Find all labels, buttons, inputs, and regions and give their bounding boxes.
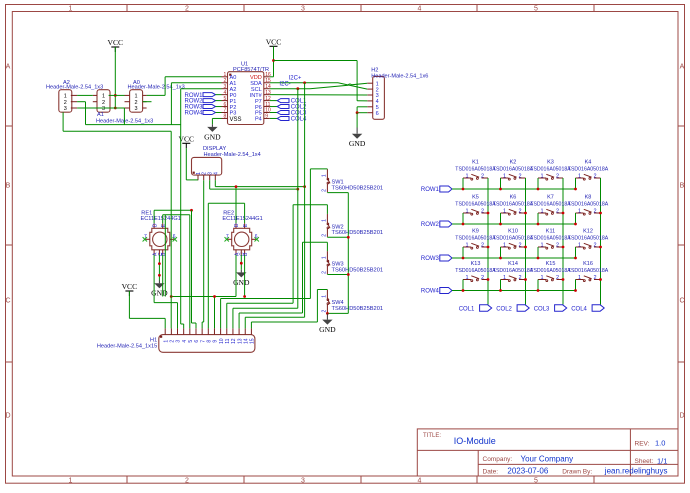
svg-text:1: 1 — [465, 209, 468, 215]
svg-text:Header-Male-2.54_1x4: Header-Male-2.54_1x4 — [204, 152, 261, 158]
svg-text:2: 2 — [518, 174, 521, 180]
svg-text:COL1: COL1 — [459, 306, 475, 312]
svg-text:K16: K16 — [583, 261, 593, 267]
svg-text:TSD016A05018A: TSD016A05018A — [530, 268, 571, 274]
svg-text:1: 1 — [503, 243, 506, 249]
svg-text:VSS: VSS — [230, 117, 242, 123]
svg-text:8: 8 — [224, 114, 227, 120]
svg-text:TS60HD50B25B201: TS60HD50B25B201 — [332, 306, 384, 312]
svg-text:2: 2 — [556, 209, 559, 215]
svg-text:6: 6 — [194, 340, 200, 343]
svg-text:TSD016A05018A: TSD016A05018A — [493, 202, 534, 208]
svg-text:2: 2 — [556, 174, 559, 180]
svg-text:1: 1 — [578, 243, 581, 249]
svg-text:K4: K4 — [585, 160, 592, 166]
svg-text:1: 1 — [322, 256, 328, 259]
svg-text:EC11E15244G1: EC11E15244G1 — [222, 216, 262, 222]
svg-text:TSD016A05018A: TSD016A05018A — [568, 236, 609, 242]
svg-text:COL3: COL3 — [534, 306, 550, 312]
svg-text:2: 2 — [185, 6, 189, 13]
svg-text:GND: GND — [319, 325, 336, 334]
svg-text:2: 2 — [593, 275, 596, 281]
svg-text:1: 1 — [465, 275, 468, 281]
svg-text:1: 1 — [69, 6, 73, 13]
svg-text:7: 7 — [144, 234, 147, 240]
svg-text:15: 15 — [250, 338, 256, 344]
svg-text:TSD016A05018A: TSD016A05018A — [530, 167, 571, 173]
svg-text:TS60HD50B25B201: TS60HD50B25B201 — [332, 267, 384, 273]
svg-text:ROW1: ROW1 — [421, 187, 440, 193]
svg-text:B: B — [6, 183, 11, 190]
svg-text:8: 8 — [206, 340, 212, 343]
svg-text:10: 10 — [219, 338, 225, 344]
svg-text:11: 11 — [225, 338, 231, 343]
svg-text:2: 2 — [481, 209, 484, 215]
svg-text:2: 2 — [322, 271, 328, 274]
svg-text:K13: K13 — [471, 261, 481, 267]
svg-text:9: 9 — [265, 114, 268, 120]
svg-text:2: 2 — [593, 209, 596, 215]
svg-text:Header-Male-2.54_1x6: Header-Male-2.54_1x6 — [371, 74, 428, 80]
svg-text:3: 3 — [176, 340, 182, 343]
svg-text:1: 1 — [540, 209, 543, 215]
svg-text:Your Company: Your Company — [521, 455, 574, 464]
svg-text:1: 1 — [540, 275, 543, 281]
svg-text:2: 2 — [102, 100, 105, 106]
svg-text:K9: K9 — [472, 229, 479, 235]
svg-text:TSD016A05018A: TSD016A05018A — [568, 268, 609, 274]
svg-text:Header-Male-2.54_1x15: Header-Male-2.54_1x15 — [97, 343, 157, 349]
svg-text:5: 5 — [188, 340, 194, 343]
svg-text:Company:: Company: — [483, 456, 513, 463]
svg-text:1: 1 — [322, 174, 328, 177]
svg-text:1: 1 — [578, 275, 581, 281]
svg-text:COL2: COL2 — [496, 306, 512, 312]
svg-text:jean.redelinghuys: jean.redelinghuys — [604, 467, 668, 476]
svg-text:A: A — [680, 64, 685, 71]
svg-text:TSD016A05018A: TSD016A05018A — [568, 167, 609, 173]
svg-text:12: 12 — [231, 338, 237, 344]
svg-text:K5: K5 — [472, 195, 479, 201]
svg-text:P4: P4 — [255, 117, 262, 123]
svg-text:2: 2 — [481, 275, 484, 281]
svg-text:D: D — [679, 413, 684, 420]
svg-text:Date:: Date: — [483, 468, 499, 475]
svg-text:6: 6 — [376, 111, 379, 117]
svg-text:9: 9 — [213, 340, 219, 343]
svg-text:1: 1 — [163, 340, 169, 343]
svg-text:P3: P3 — [230, 111, 237, 117]
svg-text:1: 1 — [503, 209, 506, 215]
svg-text:TS60HD50B25B201: TS60HD50B25B201 — [332, 185, 384, 191]
svg-text:1: 1 — [322, 219, 328, 222]
svg-text:4: 4 — [182, 340, 188, 343]
svg-text:2: 2 — [518, 275, 521, 281]
svg-text:1: 1 — [465, 243, 468, 249]
svg-text:K1: K1 — [472, 160, 479, 166]
svg-text:6: 6 — [173, 234, 176, 240]
svg-text:1: 1 — [503, 275, 506, 281]
svg-text:1: 1 — [64, 94, 67, 100]
svg-text:5: 5 — [534, 6, 538, 13]
svg-text:2: 2 — [481, 174, 484, 180]
svg-text:ROW3: ROW3 — [421, 256, 440, 262]
svg-text:14: 14 — [243, 338, 249, 344]
svg-text:I2C-: I2C- — [279, 82, 290, 88]
svg-text:3: 3 — [301, 478, 305, 485]
svg-text:TSD016A05018A: TSD016A05018A — [455, 236, 496, 242]
svg-text:3: 3 — [64, 106, 67, 112]
svg-text:1: 1 — [503, 174, 506, 180]
svg-text:D: D — [234, 223, 240, 227]
svg-text:D: D — [5, 413, 10, 420]
svg-text:4: 4 — [418, 478, 422, 485]
svg-text:2: 2 — [322, 309, 328, 312]
svg-text:2: 2 — [322, 189, 328, 192]
svg-text:1: 1 — [540, 243, 543, 249]
svg-text:K15: K15 — [546, 261, 556, 267]
svg-text:2: 2 — [481, 243, 484, 249]
svg-text:K8: K8 — [585, 195, 592, 201]
svg-text:TS60HD50B25B201: TS60HD50B25B201 — [332, 230, 384, 236]
svg-text:4: 4 — [213, 172, 219, 175]
svg-text:2: 2 — [185, 478, 189, 485]
svg-text:7: 7 — [226, 234, 229, 240]
svg-text:K11: K11 — [546, 229, 555, 235]
svg-text:TSD016A05018A: TSD016A05018A — [530, 236, 571, 242]
svg-text:D: D — [152, 223, 158, 227]
svg-text:A: A — [6, 64, 11, 71]
svg-text:VCC: VCC — [122, 282, 138, 291]
svg-text:5: 5 — [534, 478, 538, 485]
svg-text:2: 2 — [593, 174, 596, 180]
svg-text:REV:: REV: — [635, 441, 650, 448]
svg-text:ROW4: ROW4 — [421, 289, 440, 295]
svg-text:2: 2 — [322, 234, 328, 237]
svg-text:TITLE:: TITLE: — [423, 433, 441, 439]
svg-text:Header-Male-2.54_1x3: Header-Male-2.54_1x3 — [128, 84, 185, 90]
svg-text:TSD016A05018A: TSD016A05018A — [493, 268, 534, 274]
svg-text:1: 1 — [578, 209, 581, 215]
svg-text:1: 1 — [135, 94, 138, 100]
svg-text:GND: GND — [349, 139, 366, 148]
svg-text:K2: K2 — [510, 160, 517, 166]
svg-text:1: 1 — [578, 174, 581, 180]
svg-text:2: 2 — [64, 100, 67, 106]
svg-text:I2C+: I2C+ — [289, 75, 302, 81]
svg-text:3: 3 — [301, 6, 305, 13]
svg-text:VCC: VCC — [266, 38, 282, 47]
svg-text:TSD016A05018A: TSD016A05018A — [568, 202, 609, 208]
svg-text:TSD016A05018A: TSD016A05018A — [455, 268, 496, 274]
svg-text:TSD016A05018A: TSD016A05018A — [530, 202, 571, 208]
svg-text:VCC: VCC — [107, 38, 123, 47]
svg-text:1: 1 — [540, 174, 543, 180]
svg-text:A1: A1 — [97, 112, 104, 118]
svg-text:K14: K14 — [508, 261, 518, 267]
svg-text:13: 13 — [237, 338, 243, 344]
svg-text:TSD016A05018A: TSD016A05018A — [493, 236, 534, 242]
svg-text:TSD016A05018A: TSD016A05018A — [455, 202, 496, 208]
svg-text:EC11E15244G1: EC11E15244G1 — [141, 216, 181, 222]
svg-text:1: 1 — [465, 174, 468, 180]
svg-text:PCF8574T/TR: PCF8574T/TR — [233, 67, 269, 73]
svg-text:K12: K12 — [583, 229, 593, 235]
svg-text:ROW2: ROW2 — [421, 222, 440, 228]
svg-text:2: 2 — [518, 209, 521, 215]
svg-text:2: 2 — [170, 340, 176, 343]
svg-text:K6: K6 — [510, 195, 517, 201]
svg-text:COL4: COL4 — [571, 306, 587, 312]
svg-text:H1: H1 — [150, 337, 157, 343]
svg-text:GND: GND — [204, 132, 221, 141]
svg-text:1: 1 — [69, 478, 73, 485]
svg-text:1: 1 — [102, 94, 105, 100]
svg-text:2: 2 — [593, 243, 596, 249]
svg-text:6: 6 — [255, 234, 258, 240]
svg-text:1.0: 1.0 — [655, 439, 665, 448]
svg-text:TSD016A05018A: TSD016A05018A — [455, 167, 496, 173]
svg-text:K7: K7 — [547, 195, 554, 201]
svg-text:K10: K10 — [508, 229, 518, 235]
svg-text:IO-Module: IO-Module — [454, 436, 496, 446]
svg-text:Header-Male-2.54_1x3: Header-Male-2.54_1x3 — [46, 84, 103, 90]
svg-text:2: 2 — [518, 243, 521, 249]
svg-text:7: 7 — [200, 340, 206, 343]
svg-text:Sheet:: Sheet: — [635, 458, 654, 465]
svg-text:C: C — [679, 298, 684, 305]
svg-text:2: 2 — [556, 275, 559, 281]
svg-text:2: 2 — [556, 243, 559, 249]
svg-text:Drawn By:: Drawn By: — [562, 468, 592, 475]
svg-text:K3: K3 — [547, 160, 554, 166]
svg-text:4: 4 — [418, 6, 422, 13]
svg-text:TSD016A05018A: TSD016A05018A — [493, 167, 534, 173]
svg-text:C: C — [5, 298, 10, 305]
svg-text:2023-07-06: 2023-07-06 — [507, 467, 548, 476]
svg-text:3: 3 — [135, 106, 138, 112]
svg-text:1/1: 1/1 — [657, 457, 667, 466]
svg-text:1: 1 — [322, 295, 328, 298]
svg-text:B: B — [680, 183, 685, 190]
svg-text:ROW4: ROW4 — [185, 111, 204, 117]
svg-text:2: 2 — [135, 100, 138, 106]
